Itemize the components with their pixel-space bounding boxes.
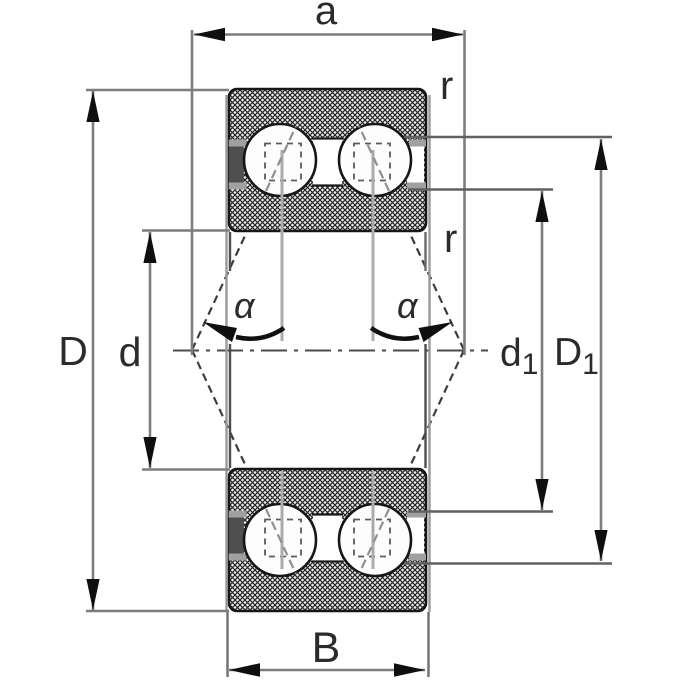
svg-text:r: r <box>444 217 457 261</box>
svg-text:α: α <box>397 285 419 326</box>
svg-text:B: B <box>312 624 341 672</box>
svg-text:D: D <box>58 328 88 374</box>
svg-text:α: α <box>234 285 256 326</box>
svg-text:d1: d1 <box>500 332 538 381</box>
svg-text:r: r <box>440 64 453 108</box>
svg-text:d: d <box>119 329 142 375</box>
svg-text:a: a <box>315 0 338 33</box>
svg-text:D1: D1 <box>554 331 599 381</box>
